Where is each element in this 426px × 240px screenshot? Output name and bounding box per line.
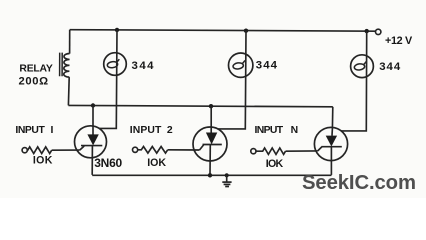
svg-text:I: I [51, 125, 54, 136]
wire R2 to gate Q2 [168, 149, 200, 151]
resistor R3 [256, 148, 285, 154]
wire anode rail [68, 105, 332, 106]
svg-text:INPUT: INPUT [255, 125, 284, 136]
SCR Q3 [314, 107, 347, 175]
label RELAY 200ohm [19, 64, 53, 88]
SCR Q1 [75, 106, 107, 175]
terminal INPUT N [251, 149, 256, 154]
terminal +12V [376, 29, 381, 34]
svg-text:IOK: IOK [33, 155, 53, 167]
node junction cathode rail / SCR2 [208, 173, 212, 177]
svg-text:344: 344 [256, 60, 278, 72]
terminal INPUT 1 [22, 148, 27, 153]
svg-text:INPUT: INPUT [130, 125, 162, 136]
ground [222, 173, 231, 186]
relay K1 coil and wires [60, 30, 70, 106]
svg-text:200Ω: 200Ω [19, 75, 49, 87]
wire cathode rail [92, 174, 331, 176]
resistor R1 [27, 147, 51, 154]
svg-text:N: N [291, 125, 299, 136]
lamp DS1 bulb [104, 53, 127, 76]
lamp DS3 bulb [351, 55, 374, 78]
node junction anode rail / SCR2 [209, 104, 213, 108]
svg-text:IOK: IOK [266, 158, 284, 170]
svg-text:2: 2 [167, 125, 173, 136]
svg-text:+12 V: +12 V [385, 35, 413, 47]
svg-text:SeekIC.com: SeekIC.com [302, 172, 416, 194]
svg-text:344: 344 [379, 61, 401, 73]
svg-text:INPUT: INPUT [15, 125, 45, 136]
lamp DS3 feed wire and bend to SCR3 [341, 31, 367, 131]
node junction top rail / lamp2 [244, 29, 248, 33]
svg-text:RELAY: RELAY [19, 64, 52, 75]
svg-text:IOK: IOK [147, 157, 166, 169]
node junction top rail / lamp1 [115, 28, 119, 32]
svg-text:3N60: 3N60 [94, 156, 122, 170]
wire top +12V rail [70, 30, 376, 32]
lamp DS2 feed wire and bend to SCR2 [218, 31, 246, 129]
wire R1 to gate Q1 [52, 149, 80, 151]
wire R3 to gate Q3 [286, 150, 318, 152]
lamp DS2 bulb [229, 53, 253, 77]
resistor R2 [138, 147, 168, 154]
terminal INPUT 2 [133, 147, 138, 152]
node junction anode rail / SCR1 [91, 103, 95, 107]
node junction top rail / lamp3 [365, 29, 369, 33]
SCR Q2 [193, 106, 227, 175]
lamp DS1 feed wire and bend to SCR1 [100, 30, 118, 128]
svg-text:344: 344 [132, 60, 155, 72]
